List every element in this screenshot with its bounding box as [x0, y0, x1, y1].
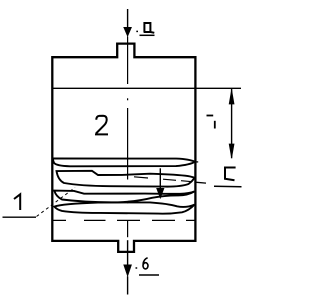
- outlet arrow b head: [124, 265, 132, 277]
- label 1 underline: [3, 216, 37, 218]
- label 2 numeral: [95, 116, 108, 135]
- vessel body outline: [52, 44, 195, 252]
- centerline dash 1: [127, 37, 129, 85]
- dash-dot axis through plate B: [134, 177, 192, 182]
- outlet arrow b shaft lower: [127, 276, 129, 294]
- centerline dash 3: [127, 221, 129, 237]
- dimension line vertical: [231, 89, 233, 158]
- dot left of label b: [136, 267, 138, 269]
- label b glyph: [143, 258, 148, 265]
- label c glyph: [225, 168, 236, 181]
- inlet arrow a head: [124, 27, 132, 36]
- outlet arrow b shaft upper: [127, 240, 129, 265]
- plate D: [54, 202, 194, 213]
- tick mark dash near dimension: [207, 115, 214, 117]
- tick through wall at plate A tip: [195, 161, 199, 163]
- label c leader dash: [197, 181, 207, 184]
- plate B: [57, 171, 195, 187]
- plate C: [54, 191, 194, 203]
- leader line from label 1 to plates: [37, 188, 76, 217]
- label b underline: [139, 274, 159, 276]
- dimension arrowhead bottom: [229, 144, 234, 158]
- internal gas arrow head: [157, 188, 164, 198]
- label c underline: [214, 185, 242, 188]
- bottom dashed level line: [53, 219, 196, 221]
- label a underline: [140, 34, 155, 36]
- label 1 numeral: [14, 194, 20, 210]
- dot left of label a: [136, 30, 138, 32]
- tick mark vertical near dimension: [214, 121, 216, 129]
- dimension arrowhead top: [229, 90, 234, 104]
- internal gas arrow shaft: [159, 168, 161, 189]
- centerline dot 1: [127, 98, 129, 100]
- centerline dash 2: [127, 108, 129, 180]
- plate A: [53, 158, 195, 166]
- centerline dot 2: [127, 201, 129, 203]
- label a glyph: [144, 23, 155, 33]
- inlet arrow a shaft: [127, 9, 129, 28]
- inner top line (liquid level / extension line): [53, 87, 241, 89]
